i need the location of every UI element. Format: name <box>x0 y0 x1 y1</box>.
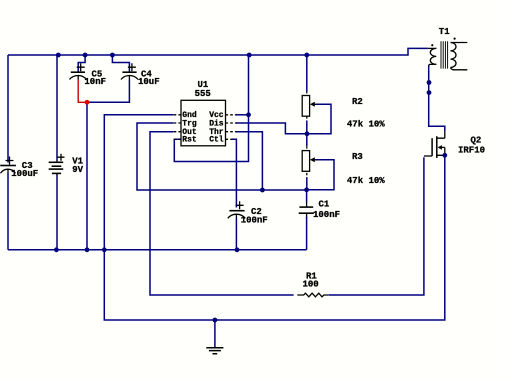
svg-text:C1: C1 <box>319 200 330 210</box>
svg-text:R2: R2 <box>352 97 363 107</box>
svg-text:10nF: 10nF <box>84 77 106 87</box>
svg-text:T1: T1 <box>439 27 450 37</box>
svg-text:Q2: Q2 <box>471 136 482 146</box>
svg-text:9V: 9V <box>72 165 83 175</box>
svg-text:Dis: Dis <box>209 119 224 128</box>
svg-text:100uF: 100uF <box>11 169 38 179</box>
svg-text:R3: R3 <box>352 152 363 162</box>
svg-text:Trg: Trg <box>182 119 197 128</box>
svg-text:Ctl: Ctl <box>209 136 224 145</box>
svg-text:555: 555 <box>195 89 211 99</box>
svg-text:100nF: 100nF <box>241 216 268 226</box>
svg-text:10uF: 10uF <box>138 77 160 87</box>
svg-text:Rst: Rst <box>182 136 197 145</box>
svg-text:100nF: 100nF <box>313 210 340 220</box>
svg-text:100: 100 <box>303 280 319 290</box>
svg-text:47k 10%: 47k 10% <box>347 119 385 129</box>
svg-text:IRF10: IRF10 <box>458 145 485 155</box>
svg-text:47k 10%: 47k 10% <box>347 176 385 186</box>
